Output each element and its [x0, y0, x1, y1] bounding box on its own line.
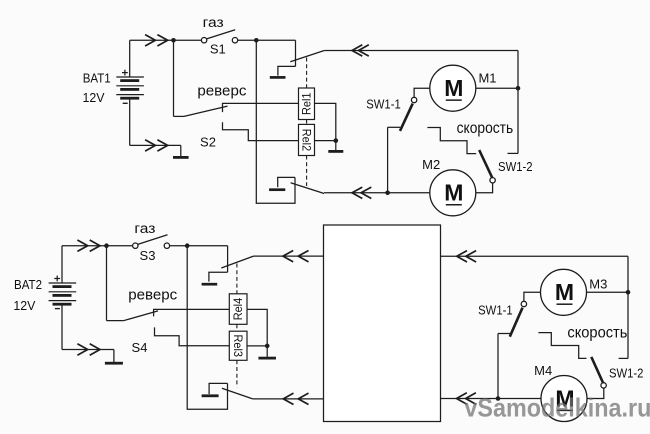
svg-text:S2: S2: [200, 134, 216, 149]
svg-text:SW1-2: SW1-2: [498, 159, 533, 174]
svg-text:Rel1: Rel1: [300, 92, 314, 115]
svg-text:M: M: [444, 180, 463, 206]
svg-text:S3: S3: [140, 248, 156, 263]
svg-text:Rel2: Rel2: [300, 129, 314, 152]
svg-text:M4: M4: [534, 363, 552, 378]
svg-text:12V: 12V: [83, 91, 106, 105]
svg-text:скорость: скорость: [567, 324, 627, 341]
svg-text:M2: M2: [422, 157, 440, 172]
svg-text:M: M: [555, 279, 574, 305]
svg-text:BAT2: BAT2: [14, 277, 42, 292]
svg-text:M1: M1: [478, 70, 496, 85]
svg-text:M: M: [444, 75, 463, 101]
svg-text:SW1-1: SW1-1: [478, 303, 513, 318]
svg-text:M3: M3: [589, 276, 607, 291]
svg-text:S4: S4: [132, 340, 148, 355]
svg-text:S1: S1: [210, 41, 226, 56]
svg-text:vSamodelkina.ru: vSamodelkina.ru: [464, 392, 650, 422]
svg-text:12V: 12V: [13, 299, 36, 313]
svg-text:скорость: скорость: [457, 120, 514, 137]
svg-text:реверс: реверс: [128, 287, 177, 304]
svg-text:Rel4: Rel4: [231, 298, 245, 321]
svg-text:SW1-2: SW1-2: [609, 366, 644, 381]
svg-text:газ: газ: [134, 221, 155, 237]
svg-text:газ: газ: [203, 15, 224, 31]
svg-text:Rel3: Rel3: [231, 335, 245, 358]
svg-text:реверс: реверс: [197, 82, 246, 99]
svg-text:SW1-1: SW1-1: [366, 97, 401, 112]
svg-text:BAT1: BAT1: [83, 71, 111, 86]
